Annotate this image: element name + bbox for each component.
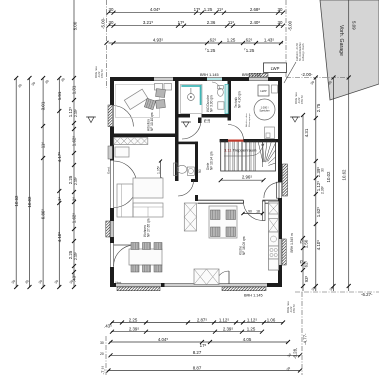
svg-text:18: 18 xyxy=(256,210,260,214)
left chain ticks xyxy=(14,76,76,289)
ticks line 2 xyxy=(107,24,286,28)
bottom exterior wall xyxy=(110,283,282,287)
living tall shelf X xyxy=(184,203,196,231)
ref line vertical bottom left xyxy=(105,336,107,375)
ref line horizontal -2.00 xyxy=(286,77,349,79)
svg-text:75: 75 xyxy=(300,240,304,244)
right chain fine line xyxy=(315,78,317,292)
svg-text:10.02: 10.02 xyxy=(326,171,331,183)
svg-text:30: 30 xyxy=(278,7,283,12)
ticks line 3 xyxy=(112,41,284,45)
bottom chain line D xyxy=(110,354,301,356)
svg-text:2.68⁶: 2.68⁶ xyxy=(250,7,261,12)
svg-text:2.75: 2.75 xyxy=(316,103,321,112)
window right kitchen 2 + sill xyxy=(278,239,286,265)
svg-text:3.21⁵: 3.21⁵ xyxy=(143,20,154,25)
left wall radiator bar xyxy=(108,146,112,159)
svg-text:1.11 Treppenraum: 1.11 Treppenraum xyxy=(224,148,257,153)
window top bath xyxy=(207,77,222,81)
svg-text:4.04⁵: 4.04⁵ xyxy=(158,337,169,342)
bottom ticks xyxy=(107,321,303,373)
svg-text:679.73: 679.73 xyxy=(100,69,104,78)
left chain line 4.17 xyxy=(58,78,60,287)
office entry door in left wall xyxy=(108,105,133,127)
svg-text:NF 27.65 qm: NF 27.65 qm xyxy=(147,218,151,237)
walk line with arrow xyxy=(224,144,264,156)
technik tank circle xyxy=(254,99,275,120)
left chain fine line xyxy=(73,0,75,287)
svg-text:-6.28,: -6.28, xyxy=(293,348,298,359)
svg-text:11⁶: 11⁶ xyxy=(228,20,235,25)
svg-text:2.96⁵: 2.96⁵ xyxy=(242,175,253,180)
svg-text:1.51: 1.51 xyxy=(57,91,62,100)
svg-text:18: 18 xyxy=(207,119,211,123)
svg-text:2.39⁵: 2.39⁵ xyxy=(129,327,140,332)
technik equipment box xyxy=(265,127,275,139)
svg-text:-5.00: -5.00 xyxy=(288,20,293,31)
bottom chain line A xyxy=(111,322,283,324)
LWP outdoor unit xyxy=(264,63,287,73)
garderobe cabinet xyxy=(114,138,148,145)
svg-text:⌜1.25: ⌜1.25 xyxy=(244,48,255,53)
top chain line 2 xyxy=(109,25,284,27)
svg-text:2.39⁵: 2.39⁵ xyxy=(74,108,78,117)
svg-text:1.05⁶: 1.05⁶ xyxy=(157,165,161,174)
stairs xyxy=(219,140,276,183)
top dimension chains xyxy=(107,7,286,53)
svg-text:2.39⁵: 2.39⁵ xyxy=(74,176,78,185)
reference lines xyxy=(106,0,379,375)
svg-text:1.62⁵: 1.62⁵ xyxy=(72,213,77,224)
svg-text:1.62⁵: 1.62⁵ xyxy=(72,136,77,147)
svg-text:30: 30 xyxy=(109,7,114,12)
svg-text:10.62: 10.62 xyxy=(342,169,347,181)
right dimension chains xyxy=(290,76,351,292)
office desk chair xyxy=(144,98,155,109)
bottom chain line B xyxy=(111,331,262,333)
svg-text:2.25: 2.25 xyxy=(68,250,73,259)
door opening left terrace 2 xyxy=(110,243,114,267)
svg-text:Gard.: Gard. xyxy=(107,166,111,174)
svg-text:-7,⁵⁵: -7,⁵⁵ xyxy=(101,366,106,375)
sofa L-shape xyxy=(117,184,133,217)
svg-text:2.25: 2.25 xyxy=(129,317,138,322)
technik shelf xyxy=(272,85,278,93)
bath door arc xyxy=(182,120,201,139)
svg-text:1¹: 1¹ xyxy=(57,197,62,201)
svg-text:NF 3.30 qm: NF 3.30 qm xyxy=(210,95,214,112)
svg-text:1.06: 1.06 xyxy=(267,317,276,322)
svg-text:90: 90 xyxy=(248,210,252,214)
interior wall office right xyxy=(175,81,179,181)
ref line horizontal -6.27 bottom right xyxy=(295,291,379,293)
svg-text:BRH 1.545 m: BRH 1.545 m xyxy=(290,233,294,252)
svg-text:4.31: 4.31 xyxy=(304,128,309,137)
fire wall red marking xyxy=(228,140,244,142)
svg-text:62⁵: 62⁵ xyxy=(210,37,217,42)
niche dim xyxy=(160,161,162,179)
svg-text:2.39⁵: 2.39⁵ xyxy=(223,327,234,332)
svg-text:3.01: 3.01 xyxy=(41,101,46,110)
garage dimension line 5.09 xyxy=(348,0,350,291)
svg-text:Abluft n. oben: Abluft n. oben xyxy=(245,113,248,127)
svg-text:10.02: 10.02 xyxy=(27,196,32,208)
svg-text:5.00: 5.00 xyxy=(72,21,77,30)
svg-text:30: 30 xyxy=(278,20,283,25)
svg-text:Wärmepumpe: Wärmepumpe xyxy=(248,112,251,127)
svg-text:1.12⁵: 1.12⁵ xyxy=(247,317,258,322)
svg-text:1.43⁵: 1.43⁵ xyxy=(264,37,275,42)
window top technik + sill xyxy=(249,73,268,81)
svg-text:8.87: 8.87 xyxy=(193,365,202,370)
interior wall technik bottom xyxy=(220,139,228,142)
shower enclosure xyxy=(181,84,202,113)
coffee table xyxy=(133,178,163,198)
leader diagonal to note xyxy=(284,62,296,83)
svg-text:NF 10.10 qm: NF 10.10 qm xyxy=(150,112,154,131)
bottom chain line E xyxy=(108,370,301,372)
small labels xyxy=(200,63,294,298)
svg-text:679.73: 679.73 xyxy=(292,304,296,313)
svg-text:2.40⁶: 2.40⁶ xyxy=(250,20,261,25)
winder treads xyxy=(258,141,276,166)
svg-text:-2.00-: -2.00- xyxy=(301,72,313,77)
guest wc fixtures xyxy=(174,163,178,176)
guest wc east wall xyxy=(195,142,198,181)
svg-text:4.93⁵: 4.93⁵ xyxy=(153,37,164,42)
svg-text:-4.77-: -4.77- xyxy=(303,333,308,345)
svg-text:11⁶: 11⁶ xyxy=(41,142,46,149)
svg-text:2.25: 2.25 xyxy=(68,175,73,184)
right exterior wall xyxy=(278,77,282,287)
right chain ticks xyxy=(301,76,351,289)
svg-text:10.62: 10.62 xyxy=(14,195,19,207)
OKG note right top xyxy=(294,92,304,104)
entrance door opening right wall xyxy=(278,164,288,198)
svg-text:62⁵: 62⁵ xyxy=(246,37,253,42)
kitchen door dim xyxy=(243,213,262,215)
svg-text:8.27: 8.27 xyxy=(193,350,202,355)
guest wc door arc xyxy=(178,181,194,197)
ref line vertical -4.77 xyxy=(301,292,303,375)
svg-text:20: 20 xyxy=(100,352,104,356)
svg-text:1.12⁵: 1.12⁵ xyxy=(219,317,230,322)
svg-text:4.10⁵: 4.10⁵ xyxy=(316,240,321,251)
rooms interior xyxy=(114,81,280,284)
svg-text:11⁶: 11⁶ xyxy=(217,7,224,12)
svg-text:5.09: 5.09 xyxy=(352,21,357,30)
stair width dim xyxy=(221,179,264,181)
left chain line 10.62 xyxy=(15,78,17,287)
bottom sideboard X xyxy=(194,269,219,285)
technik LWP unit xyxy=(258,85,269,96)
terrace door arc 2 xyxy=(114,245,135,266)
svg-text:1.25: 1.25 xyxy=(204,7,213,12)
kitchen door arc xyxy=(243,201,262,220)
ref line vertical -5.00 right xyxy=(285,0,287,78)
svg-text:NF 10.94 qm: NF 10.94 qm xyxy=(210,151,214,170)
svg-text:6.86⁵: 6.86⁵ xyxy=(41,209,46,220)
bath window swing arc xyxy=(212,82,220,90)
svg-text:93⁵: 93⁵ xyxy=(304,275,309,282)
left chain line 10.02 xyxy=(29,78,31,287)
technik door arc xyxy=(228,125,244,141)
entrance door arc xyxy=(264,182,279,198)
left dimension chains xyxy=(11,0,96,289)
level triangle hall xyxy=(183,122,189,127)
svg-text:2.39⁵: 2.39⁵ xyxy=(321,185,325,194)
top chain line 3 xyxy=(109,42,284,44)
office rug xyxy=(116,85,160,118)
svg-text:2.39⁵: 2.39⁵ xyxy=(74,251,78,260)
svg-text:2.36: 2.36 xyxy=(207,20,216,25)
svg-text:4.17⁵: 4.17⁵ xyxy=(57,152,62,163)
svg-text:Nest: Nest xyxy=(116,281,122,285)
svg-text:4.05: 4.05 xyxy=(243,337,252,342)
svg-text:BRH 1.145: BRH 1.145 xyxy=(200,73,219,77)
interior wall bath bottom xyxy=(179,114,191,118)
kitchen counter right xyxy=(269,202,279,271)
level triangle right xyxy=(292,117,298,122)
svg-text:30: 30 xyxy=(100,341,104,345)
dining chairs top xyxy=(131,243,162,273)
guest wc south wall stub xyxy=(191,179,198,182)
towel radiator teal xyxy=(225,84,228,113)
svg-text:62⁵: 62⁵ xyxy=(304,260,309,267)
svg-text:-6.27-: -6.27- xyxy=(361,292,373,297)
kitchen table xyxy=(209,206,237,238)
gard bench xyxy=(115,147,129,157)
stair outline xyxy=(221,141,276,171)
office chairs and shelves xyxy=(155,84,163,91)
svg-text:NF 16.09 qm: NF 16.09 qm xyxy=(242,236,246,255)
svg-text:LWP: LWP xyxy=(260,89,266,93)
svg-text:75: 75 xyxy=(300,260,304,264)
window left living + sill xyxy=(106,221,114,237)
svg-text:⌜1.25: ⌜1.25 xyxy=(205,48,216,53)
ref line vertical -5.00 left xyxy=(106,0,108,88)
left chain line 6.86 xyxy=(42,78,44,287)
svg-text:4.10⁵: 4.10⁵ xyxy=(57,232,62,243)
svg-text:1.25: 1.25 xyxy=(247,327,256,332)
svg-text:30: 30 xyxy=(321,168,325,172)
right chain line 10.02 xyxy=(333,78,335,292)
door opening left terrace 1 (double) xyxy=(110,161,114,209)
OKG note bottom right xyxy=(286,301,296,313)
level texts xyxy=(94,17,373,375)
top exterior wall xyxy=(110,77,282,81)
svg-text:30: 30 xyxy=(109,20,114,25)
bottom chain line C xyxy=(110,341,289,343)
svg-text:Speicher: Speicher xyxy=(259,109,269,113)
tiny note block top right xyxy=(295,42,305,61)
svg-text:679.73: 679.73 xyxy=(300,95,304,104)
bottom dimension chains xyxy=(100,317,302,372)
interior wall bath-technik xyxy=(228,81,232,121)
svg-text:1.62⁵: 1.62⁵ xyxy=(316,207,321,218)
svg-text:2.87⁵: 2.87⁵ xyxy=(197,317,208,322)
stair change line xyxy=(262,141,264,167)
ticks line 1 xyxy=(107,11,286,15)
svg-text:LWP: LWP xyxy=(271,66,280,71)
svg-text:Vorh. Garage: Vorh. Garage xyxy=(338,25,344,56)
svg-text:BRH 1.145: BRH 1.145 xyxy=(244,294,263,298)
kitchen north wall (double line) xyxy=(198,200,279,203)
svg-text:1.25: 1.25 xyxy=(227,37,236,42)
terrace door arc 1 (double wing) xyxy=(114,161,137,184)
sink xyxy=(218,102,224,109)
WC xyxy=(218,86,224,89)
left exterior wall xyxy=(110,77,114,287)
treads xyxy=(225,141,256,171)
furniture xyxy=(107,84,279,285)
svg-text:17⁶: 17⁶ xyxy=(194,7,201,12)
svg-text:17⁶: 17⁶ xyxy=(178,20,185,25)
svg-text:1.31: 1.31 xyxy=(72,85,77,94)
svg-text:BRH 1.145: BRH 1.145 xyxy=(242,73,261,77)
bottom terrace door arc xyxy=(216,271,229,284)
dining table xyxy=(129,249,162,265)
window bottom full band xyxy=(116,283,267,291)
svg-text:Lüftung i. Dach: Lüftung i. Dach xyxy=(301,43,305,61)
window top office xyxy=(154,77,173,81)
right chain line 93/62/150 xyxy=(302,115,304,291)
level triangle left xyxy=(88,117,94,123)
svg-text:4.04⁵: 4.04⁵ xyxy=(150,7,161,12)
OKG note left xyxy=(94,66,104,78)
svg-text:-5.00-: -5.00- xyxy=(100,17,105,29)
svg-text:90: 90 xyxy=(198,169,202,173)
interior wall office bottom xyxy=(114,134,175,138)
svg-text:NF 4.90 qm: NF 4.90 qm xyxy=(238,91,242,108)
office desk xyxy=(124,89,148,109)
top chain line 1 xyxy=(109,12,284,14)
garage polygon (Vorh. Garage) xyxy=(320,0,379,291)
shower head xyxy=(188,94,195,101)
guest wc top wall xyxy=(175,142,198,145)
svg-text:1.12⁵: 1.12⁵ xyxy=(68,107,73,118)
